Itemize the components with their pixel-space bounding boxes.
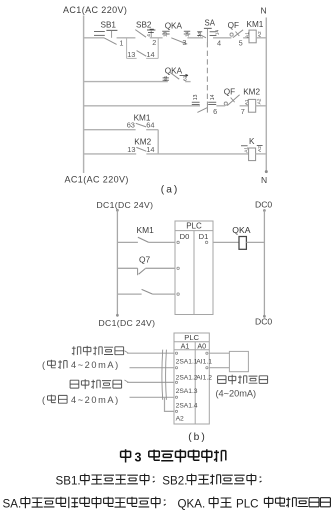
- legend line 1: [56, 474, 262, 488]
- wire row3 seg SA2-QF: [216, 105, 225, 107]
- contact KM1 (b): [117, 225, 175, 242]
- svg-text:N: N: [261, 6, 267, 16]
- label humidity sensor 2: [218, 375, 268, 385]
- svg-text:2SA1.4: 2SA1.4: [176, 402, 198, 409]
- label N top: [261, 6, 267, 16]
- svg-text:1: 1: [119, 39, 123, 48]
- wire sensor 1-: [130, 367, 175, 369]
- svg-text:QKA: QKA: [165, 66, 183, 75]
- wire sensor 2-: [130, 396, 175, 398]
- label DC0 top: [255, 199, 272, 209]
- svg-text:4~20mA): 4~20mA): [71, 395, 120, 405]
- svg-text:14: 14: [214, 30, 220, 36]
- PLC input pin 1: [177, 241, 179, 243]
- contact KM1 63-64: [127, 114, 155, 130]
- svg-text:PLC: PLC: [236, 497, 259, 510]
- terminal 2SA1.2: [175, 367, 197, 382]
- svg-text:A2: A2: [257, 31, 263, 37]
- label DC0 bottom: [255, 317, 272, 327]
- terminal A2: [175, 410, 184, 422]
- svg-text:13: 13: [193, 94, 199, 100]
- svg-text:AC1(AC 220V): AC1(AC 220V): [63, 5, 127, 15]
- label DC1(DC 24V) top: [97, 200, 154, 210]
- wire sensor 2+: [125, 380, 175, 382]
- svg-text:KM1: KM1: [137, 225, 155, 235]
- transfer switch SA (pole 2): [192, 94, 216, 112]
- svg-text:3: 3: [182, 38, 186, 47]
- svg-text:SA.: SA.: [3, 497, 22, 510]
- svg-text:KM2: KM2: [243, 88, 260, 97]
- wire number 4: [217, 39, 221, 48]
- PLC analog box: [174, 333, 209, 424]
- svg-text:QKA: QKA: [165, 21, 183, 30]
- contact input 3 (b): [117, 289, 175, 294]
- wire row1 seg SB1-SB2: [117, 37, 136, 39]
- svg-text:6: 6: [213, 107, 217, 116]
- svg-text:SA: SA: [205, 18, 216, 27]
- wire sensor 1+: [125, 351, 175, 353]
- terminal 2SA1.3: [175, 381, 197, 395]
- breaker aux contact QF row1: [228, 21, 244, 37]
- svg-text:14: 14: [185, 31, 191, 37]
- svg-text:SB1.: SB1.: [56, 474, 81, 487]
- wire row1 seg SB2-QKA: [150, 37, 163, 39]
- wire row1 seg QKA-SA: [187, 37, 203, 39]
- cable screen marks: [162, 350, 167, 400]
- bus DC1 left (b): [116, 209, 118, 316]
- svg-text:64: 64: [146, 121, 154, 130]
- svg-text:QKA.: QKA.: [178, 497, 206, 510]
- svg-text:13: 13: [163, 31, 169, 37]
- svg-text:61: 61: [163, 75, 169, 81]
- svg-text:AC1(AC 220V): AC1(AC 220V): [65, 175, 129, 185]
- wire number 3: [182, 38, 186, 47]
- svg-text:QF: QF: [224, 87, 235, 96]
- label temperature sensor: [72, 346, 124, 356]
- svg-text:DC1(DC 24V): DC1(DC 24V): [97, 200, 154, 210]
- contact Q7 (b): [117, 255, 175, 276]
- wire row4: [84, 129, 159, 131]
- svg-text:14: 14: [146, 50, 154, 59]
- svg-text:13: 13: [127, 145, 135, 154]
- bus DC0 right (b): [263, 210, 265, 318]
- wire row3 seg bus-SA2: [84, 105, 200, 107]
- wire row1 seg bus-SB1: [84, 37, 104, 39]
- label (liaoshi 4-20mA): [42, 395, 120, 405]
- wire PLC to humidity sensor 2 (-): [209, 367, 229, 369]
- wire row3 seg coil-N: [256, 105, 267, 107]
- svg-text:3: 3: [135, 451, 142, 465]
- svg-text:SB2.: SB2.: [162, 474, 187, 487]
- svg-text:QF: QF: [228, 21, 239, 30]
- svg-text:(: (: [42, 395, 45, 405]
- linkage dashed line SA: [206, 42, 208, 113]
- latch branch wire left: [126, 38, 128, 59]
- svg-text:SB2: SB2: [136, 20, 152, 29]
- humidity sensor 2 box: [229, 351, 248, 371]
- caption (a): [161, 184, 178, 195]
- svg-text:N: N: [261, 175, 267, 185]
- svg-text:( a ): ( a ): [161, 184, 178, 195]
- svg-text:DC1(DC 24V): DC1(DC 24V): [99, 318, 156, 328]
- legend line 2: [3, 497, 331, 511]
- svg-text:2: 2: [152, 38, 156, 47]
- svg-text:A1: A1: [181, 342, 190, 351]
- bus L1 left (a): [83, 16, 85, 174]
- svg-text:14: 14: [146, 145, 154, 154]
- contact KM1 13-14 (latch): [127, 50, 159, 59]
- terminal AI1.2: [196, 367, 212, 382]
- label N bottom: [261, 175, 267, 185]
- bus N right (a): [265, 18, 267, 173]
- svg-text:4~20mA): 4~20mA): [71, 360, 120, 370]
- svg-text:2SA1.2: 2SA1.2: [176, 374, 198, 381]
- svg-text:2SA1.3: 2SA1.3: [176, 388, 198, 395]
- svg-text:D0: D0: [180, 232, 190, 241]
- svg-text:D1: D1: [199, 232, 209, 241]
- svg-text:DC0: DC0: [255, 199, 272, 209]
- label humidity sensor 1: [70, 379, 122, 389]
- label DC1(DC 24V) bottom: [99, 318, 156, 328]
- svg-text:A0: A0: [197, 342, 206, 351]
- PLC input pin 3: [177, 293, 179, 295]
- svg-text:A2: A2: [176, 415, 184, 422]
- svg-text:14: 14: [210, 94, 216, 100]
- latch branch wire right: [157, 38, 159, 59]
- PLC box (digital): [175, 221, 213, 315]
- svg-text:Q7: Q7: [139, 255, 151, 265]
- svg-text:AI1.2: AI1.2: [196, 374, 212, 381]
- PLC input pin 2: [177, 267, 179, 269]
- label AC1(AC 220V) top: [63, 5, 127, 15]
- PLC output pin D1: [205, 241, 207, 243]
- svg-text:4: 4: [217, 39, 221, 48]
- terminal 2SA1.1: [175, 352, 197, 365]
- wire row2: [84, 81, 191, 83]
- contact KM2 13-14: [127, 137, 154, 154]
- wire row1 seg SA-QF: [213, 37, 231, 39]
- svg-text:5: 5: [239, 39, 243, 48]
- svg-text:QKA: QKA: [232, 225, 250, 235]
- wire number 7: [241, 107, 245, 116]
- terminal 2SA1.4: [175, 396, 197, 409]
- wire number 5: [239, 39, 243, 48]
- svg-text:SB1: SB1: [101, 21, 117, 30]
- wire row4 drop to row5: [157, 130, 159, 154]
- pushbutton SB1 (NC stop): [94, 21, 117, 45]
- wire row1 seg QF-KM1coil: [243, 37, 249, 39]
- label (liaowen 4-20mA): [42, 360, 120, 370]
- relay contact QKA row1: [162, 21, 190, 44]
- svg-text:KM1: KM1: [247, 20, 264, 29]
- coil QKA (b): [213, 225, 264, 250]
- label (4-20mA) right: [216, 389, 257, 399]
- svg-text:4: 4: [146, 34, 152, 37]
- wire row5 coil-N: [256, 153, 267, 155]
- svg-text:AI1.1: AI1.1: [196, 358, 212, 365]
- wire PLC to humidity sensor 2 (+): [209, 352, 229, 354]
- svg-text:K: K: [249, 137, 255, 146]
- svg-text:( b ): ( b ): [188, 432, 205, 443]
- svg-text:A1: A1: [244, 99, 250, 105]
- svg-text:(4~20mA): (4~20mA): [216, 389, 257, 399]
- svg-text:2SA1.1: 2SA1.1: [176, 358, 198, 365]
- coil KM2: [243, 88, 262, 113]
- pushbutton SB2 (NO start): [135, 20, 155, 38]
- breaker aux contact QF row3: [224, 87, 240, 105]
- svg-text:PLC: PLC: [186, 222, 202, 231]
- svg-text:DC0: DC0: [255, 317, 272, 327]
- figure caption 图3 二次控制电路: [121, 449, 226, 464]
- svg-text:A2: A2: [257, 146, 263, 152]
- svg-text:63: 63: [127, 121, 135, 130]
- coil K: [241, 137, 263, 161]
- wire screen to A2: [165, 397, 175, 411]
- svg-text:7: 7: [241, 107, 245, 116]
- transfer switch SA (pole 1): [197, 18, 221, 42]
- label AC1(AC 220V) bottom: [65, 175, 129, 185]
- svg-text:A2: A2: [256, 98, 262, 104]
- svg-text:13: 13: [127, 50, 135, 59]
- wire number 6: [213, 107, 217, 116]
- wire number 1: [119, 39, 123, 48]
- svg-text:(: (: [42, 360, 45, 370]
- wire number 2: [152, 38, 156, 47]
- wire row1 seg coil-N: [256, 37, 266, 39]
- relay contact QKA row2: [163, 66, 189, 81]
- caption (b): [188, 432, 205, 443]
- coil KM1: [244, 20, 263, 43]
- svg-text:62: 62: [183, 75, 189, 81]
- wire row5: [84, 153, 249, 155]
- wire row3 seg QF-KM2coil: [240, 105, 249, 107]
- terminal AI1.1: [196, 352, 212, 365]
